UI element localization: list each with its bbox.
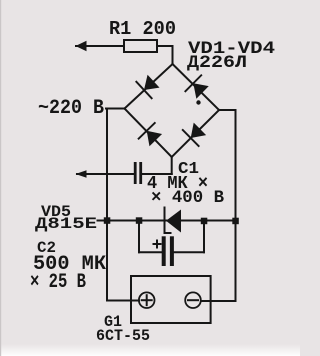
- svg-text:Д226Л: Д226Л: [187, 53, 247, 73]
- svg-text:× 25 В: × 25 В: [30, 271, 86, 294]
- svg-text:Д815Е: Д815Е: [35, 215, 97, 233]
- svg-text:6СТ-55: 6СТ-55: [96, 327, 150, 345]
- svg-text:× 400 В: × 400 В: [151, 188, 224, 208]
- svg-text:R1 200: R1 200: [109, 18, 176, 40]
- svg-text:~220 В: ~220 В: [38, 97, 104, 120]
